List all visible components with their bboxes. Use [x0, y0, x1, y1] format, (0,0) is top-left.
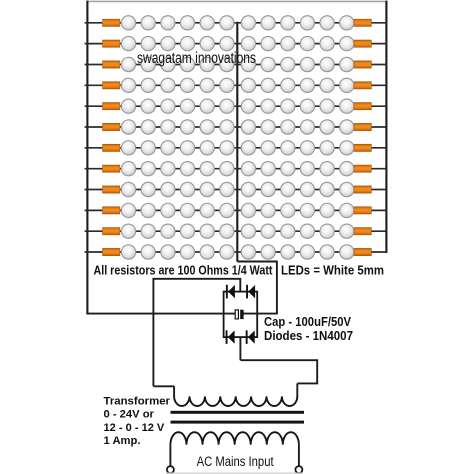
LED row 6 #5 [200, 120, 214, 134]
LED row 9 #11 [320, 182, 334, 196]
wire row 8 [85, 168, 387, 170]
LED row 8 #1 [121, 162, 135, 176]
LED row 3 #10 [300, 57, 314, 71]
LED row 10 #8 [261, 203, 275, 217]
LED row 4 #3 [161, 78, 175, 92]
LED row 1 #12 [340, 16, 354, 30]
LED row 2 #1 [121, 36, 135, 50]
LED row 7 #10 [300, 141, 314, 155]
wire secondary-left riser [152, 278, 154, 386]
LED row 10 #6 [220, 203, 234, 217]
wire primary right lead [298, 445, 300, 467]
LED row 3 #3 [161, 57, 175, 71]
LED row 9 #7 [241, 182, 255, 196]
wire secondary-right shelf [297, 382, 318, 384]
LED row 4 #4 [180, 78, 194, 92]
LED row 11 #7 [241, 224, 255, 238]
LED row 6 #1 [121, 120, 135, 134]
wire center bus jog horizontal [237, 261, 277, 263]
label: Transformer ratings [104, 395, 171, 447]
LED row 12 #7 [241, 245, 255, 259]
resistor row 7 left (100 Ohm) [103, 144, 120, 151]
LED row 2 #7 [241, 36, 255, 50]
LED row 10 #1 [121, 203, 135, 217]
transformer T1 core bar 1 [171, 411, 305, 414]
LED row 8 #3 [161, 162, 175, 176]
LED row 10 #11 [320, 203, 334, 217]
diode D1 (bridge top-left, 1N4007) [226, 285, 235, 299]
wire bridge bottom drop [239, 337, 241, 360]
wire secondary-left drop [173, 386, 175, 397]
resistor row 8 left (100 Ohm) [103, 165, 120, 172]
LED row 12 #9 [281, 245, 295, 259]
wire row 5 [85, 105, 387, 107]
LED row 12 #5 [200, 245, 214, 259]
LED row 12 #12 [340, 245, 354, 259]
wire DC+ (left bus to capacitor) [86, 313, 235, 315]
LED row 9 #1 [121, 182, 135, 196]
LED row 5 #6 [220, 99, 234, 113]
svg-text:Transformer: Transformer [104, 395, 171, 407]
LED row 1 #6 [220, 16, 234, 30]
resistor row 10 left (100 Ohm) [103, 207, 120, 214]
terminal AC right [295, 466, 302, 473]
LED row 4 #2 [141, 78, 155, 92]
LED row 7 #9 [281, 141, 295, 155]
LED row 11 #9 [281, 224, 295, 238]
LED row 11 #8 [261, 224, 275, 238]
LED row 2 #5 [200, 36, 214, 50]
LED row 4 #1 [121, 78, 135, 92]
LED row 2 #6 [220, 36, 234, 50]
LED row 11 #12 [340, 224, 354, 238]
LED row 4 #6 [220, 78, 234, 92]
LED row 1 #5 [200, 16, 214, 30]
LED row 2 #12 [340, 36, 354, 50]
LED row 1 #10 [300, 16, 314, 30]
LED row 4 #10 [300, 78, 314, 92]
bridge rectifier box [224, 292, 258, 338]
resistor row 9 left (100 Ohm) [103, 186, 120, 193]
LED row 11 #2 [141, 224, 155, 238]
LED row 9 #2 [141, 182, 155, 196]
svg-text:All resistors are 100 Ohms 1/4: All resistors are 100 Ohms 1/4 Watt [94, 263, 274, 277]
LED row 9 #10 [300, 182, 314, 196]
LED row 11 #1 [121, 224, 135, 238]
resistor row 6 right (100 Ohm) [354, 123, 371, 130]
LED row 9 #3 [161, 182, 175, 196]
LED row 5 #4 [180, 99, 194, 113]
LED row 10 #3 [161, 203, 175, 217]
LED row 8 #6 [220, 162, 234, 176]
LED row 5 #7 [241, 99, 255, 113]
LED row 1 #7 [241, 16, 255, 30]
wire row 1 [85, 22, 387, 24]
svg-text:1 Amp.: 1 Amp. [104, 435, 141, 447]
LED row 2 #11 [320, 36, 334, 50]
LED row 4 #8 [261, 78, 275, 92]
LED row 2 #4 [180, 36, 194, 50]
svg-text:AC Mains Input: AC Mains Input [197, 454, 274, 469]
LED row 5 #1 [121, 99, 135, 113]
LED row 6 #2 [141, 120, 155, 134]
LED row 2 #8 [261, 36, 275, 50]
LED row 3 #8 [261, 57, 275, 71]
resistor row 6 left (100 Ohm) [103, 123, 120, 130]
resistor row 4 left (100 Ohm) [103, 82, 120, 89]
resistor row 12 right (100 Ohm) [354, 248, 371, 255]
LED row 4 #7 [241, 78, 255, 92]
diode D4 (bridge bottom-right, 1N4007) [246, 330, 255, 344]
LED row 1 #4 [180, 16, 194, 30]
LED row 3 #11 [320, 57, 334, 71]
LED row 10 #9 [281, 203, 295, 217]
LED row 7 #2 [141, 141, 155, 155]
wire primary left lead [169, 445, 171, 467]
LED row 6 #6 [220, 120, 234, 134]
diode D2 (bridge top-right, 1N4007) [246, 285, 255, 299]
LED row 6 #3 [161, 120, 175, 134]
wire center bus jog vertical (to bridge right) [276, 261, 278, 314]
LED row 2 #9 [281, 36, 295, 50]
wire bottom crop remnant [166, 472, 303, 474]
resistor row 4 right (100 Ohm) [354, 82, 371, 89]
LED row 9 #5 [200, 182, 214, 196]
LED row 12 #11 [320, 245, 334, 259]
LED row 10 #5 [200, 203, 214, 217]
LED row 6 #11 [320, 120, 334, 134]
LED row 3 #9 [281, 57, 295, 71]
wire row 11 [85, 230, 387, 232]
resistor row 11 right (100 Ohm) [354, 228, 371, 235]
svg-text:Diodes - 1N4007: Diodes - 1N4007 [264, 328, 353, 343]
resistor row 2 right (100 Ohm) [354, 40, 371, 47]
LED row 8 #5 [200, 162, 214, 176]
LED row 1 #8 [261, 16, 275, 30]
wire row 7 [85, 147, 387, 149]
LED row 7 #1 [121, 141, 135, 155]
LED row 1 #2 [141, 16, 155, 30]
LED row 2 #3 [161, 36, 175, 50]
LED row 10 #2 [141, 203, 155, 217]
LED row 5 #8 [261, 99, 275, 113]
LED row 6 #8 [261, 120, 275, 134]
LED row 9 #9 [281, 182, 295, 196]
transformer T1 primary winding [170, 432, 298, 444]
LED row 5 #2 [141, 99, 155, 113]
LED row 2 #10 [300, 36, 314, 50]
LED row 8 #4 [180, 162, 194, 176]
LED row 5 #3 [161, 99, 175, 113]
LED row 3 #4 [180, 57, 194, 71]
wire feed horizontal [153, 278, 241, 280]
LED row 6 #12 [340, 120, 354, 134]
LED row 5 #11 [320, 99, 334, 113]
wire secondary-right drop [296, 383, 298, 397]
wire row 9 [85, 189, 387, 191]
LED row 8 #12 [340, 162, 354, 176]
diode D3 (bridge bottom-left, 1N4007) [226, 330, 235, 344]
LED row 3 #7 [241, 57, 255, 71]
LED row 9 #4 [180, 182, 194, 196]
LED row 7 #11 [320, 141, 334, 155]
resistor row 11 left (100 Ohm) [103, 228, 120, 235]
resistor row 12 left (100 Ohm) [103, 248, 120, 255]
LED row 4 #12 [340, 78, 354, 92]
resistor row 10 right (100 Ohm) [354, 207, 371, 214]
LED row 11 #4 [180, 224, 194, 238]
wire DC- (capacitor to bridge right / jog) [243, 313, 277, 315]
svg-text:LEDs = White 5mm: LEDs = White 5mm [281, 263, 384, 277]
LED row 12 #4 [180, 245, 194, 259]
LED row 10 #4 [180, 203, 194, 217]
LED row 12 #1 [121, 245, 135, 259]
LED row 8 #8 [261, 162, 275, 176]
wire secondary-left shelf [153, 385, 174, 387]
capacitor C1 100uF/50V positive plate [235, 310, 238, 319]
LED row 7 #6 [220, 141, 234, 155]
LED row 5 #5 [200, 99, 214, 113]
LED row 11 #3 [161, 224, 175, 238]
LED row 12 #10 [300, 245, 314, 259]
resistor row 3 right (100 Ohm) [354, 61, 371, 68]
wire row 12 [85, 251, 387, 253]
LED row 3 #2 [141, 57, 155, 71]
LED row 6 #7 [241, 120, 255, 134]
LED row 8 #2 [141, 162, 155, 176]
LED row 8 #11 [320, 162, 334, 176]
wire top bus (left bus to right bus) [86, 0, 387, 2]
LED row 12 #3 [161, 245, 175, 259]
LED row 11 #5 [200, 224, 214, 238]
LED row 7 #7 [241, 141, 255, 155]
LED row 11 #10 [300, 224, 314, 238]
LED row 1 #1 [121, 16, 135, 30]
svg-text:0 - 24V or: 0 - 24V or [104, 409, 155, 421]
LED row 7 #5 [200, 141, 214, 155]
LED row 3 #12 [340, 57, 354, 71]
center bus wire [236, 22, 238, 262]
left bus wire [86, 1, 88, 314]
LED row 10 #7 [241, 203, 255, 217]
wire row 2 [85, 43, 387, 45]
LED row 9 #12 [340, 182, 354, 196]
LED row 4 #9 [281, 78, 295, 92]
LED row 8 #9 [281, 162, 295, 176]
LED row 6 #10 [300, 120, 314, 134]
LED row 1 #3 [161, 16, 175, 30]
transformer T1 core bar 2 [171, 421, 305, 424]
wire bottom shelf [240, 359, 317, 361]
resistor row 7 right (100 Ohm) [354, 144, 371, 151]
LED row 3 #5 [200, 57, 214, 71]
LED row 12 #8 [261, 245, 275, 259]
resistor row 5 left (100 Ohm) [103, 103, 120, 110]
LED row 1 #11 [320, 16, 334, 30]
terminal AC left [167, 466, 174, 473]
LED row 1 #9 [281, 16, 295, 30]
LED row 12 #6 [220, 245, 234, 259]
wire row 6 [85, 126, 387, 128]
LED row 9 #8 [261, 182, 275, 196]
wire secondary-right riser [316, 359, 318, 383]
LED row 11 #11 [320, 224, 334, 238]
LED row 3 #1 [121, 57, 135, 71]
resistor row 1 right (100 Ohm) [354, 19, 371, 26]
resistor row 5 right (100 Ohm) [354, 103, 371, 110]
resistor row 3 left (100 Ohm) [103, 61, 120, 68]
LED row 9 #6 [220, 182, 234, 196]
LED row 11 #6 [220, 224, 234, 238]
LED row 10 #12 [340, 203, 354, 217]
LED row 7 #12 [340, 141, 354, 155]
LED row 5 #10 [300, 99, 314, 113]
LED row 6 #9 [281, 120, 295, 134]
LED row 10 #10 [300, 203, 314, 217]
LED row 7 #8 [261, 141, 275, 155]
LED row 12 #2 [141, 245, 155, 259]
LED row 5 #12 [340, 99, 354, 113]
transformer T1 secondary winding [174, 396, 297, 406]
wire row 3 [85, 64, 387, 66]
LED row 7 #4 [180, 141, 194, 155]
capacitor C1 100uF/50V negative plate [240, 310, 243, 319]
LED row 6 #4 [180, 120, 194, 134]
wire bridge top feed [239, 279, 241, 292]
LED row 8 #10 [300, 162, 314, 176]
LED row 2 #2 [141, 36, 155, 50]
LED row 4 #5 [200, 78, 214, 92]
resistor row 2 left (100 Ohm) [103, 40, 120, 47]
LED row 3 #6 [220, 57, 234, 71]
LED row 5 #9 [281, 99, 295, 113]
LED row 7 #3 [161, 141, 175, 155]
resistor row 1 left (100 Ohm) [103, 19, 120, 26]
LED row 8 #7 [241, 162, 255, 176]
svg-text:swagatam innovations: swagatam innovations [137, 50, 256, 67]
wire row 10 [85, 209, 387, 211]
right bus wire [385, 1, 387, 253]
resistor row 8 right (100 Ohm) [354, 165, 371, 172]
LED row 4 #11 [320, 78, 334, 92]
wire row 4 [85, 84, 387, 86]
svg-text:12 - 0 - 12 V: 12 - 0 - 12 V [104, 422, 165, 434]
resistor row 9 right (100 Ohm) [354, 186, 371, 193]
